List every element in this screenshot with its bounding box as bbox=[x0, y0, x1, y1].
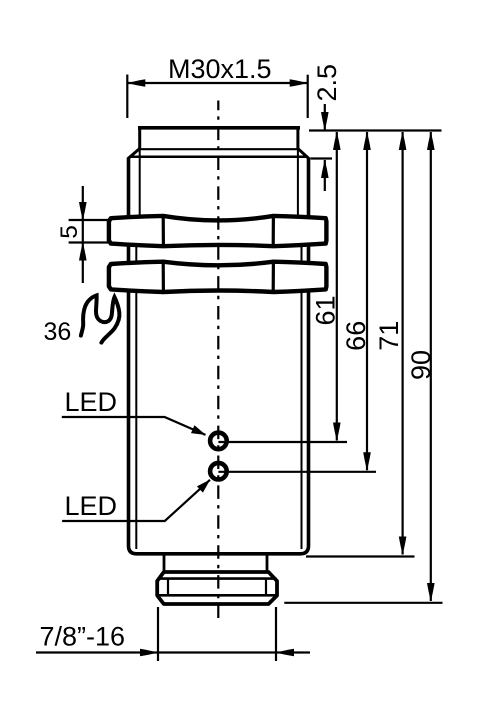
barrel chamfer right bbox=[298, 148, 310, 159]
sensing face top edge bbox=[138, 126, 300, 130]
leader line LED upper bbox=[62, 417, 206, 435]
hex nut 1 left facet line bbox=[162, 216, 165, 247]
extension line nut bottom (5) bbox=[69, 241, 112, 243]
arrow M30 left bbox=[127, 79, 145, 87]
arrow 7/8-16 right bbox=[276, 649, 294, 657]
extension line connector bottom (90) bbox=[284, 602, 442, 604]
svg-text:36: 36 bbox=[44, 318, 72, 346]
centerline (dash-dot vertical axis) bbox=[217, 101, 219, 619]
extension line M30 left bbox=[126, 75, 128, 119]
thread inner line left bbox=[139, 149, 141, 217]
connector relief line right bbox=[265, 579, 267, 596]
sensing face right edge bbox=[296, 127, 299, 150]
sensing face bottom edge bbox=[140, 148, 298, 150]
svg-text:2.5: 2.5 bbox=[312, 64, 342, 102]
extension line top face (reference for 2.5 / 61 / 66 / 71 / 90) bbox=[309, 129, 442, 131]
svg-text:LED: LED bbox=[65, 491, 118, 521]
hex nut 1 outline bbox=[109, 216, 327, 246]
dimension line 61 bbox=[336, 132, 338, 441]
extension line M30 right bbox=[307, 75, 309, 118]
svg-text:61: 61 bbox=[311, 295, 341, 325]
dimension line 71 bbox=[402, 132, 404, 555]
sensing face left edge bbox=[138, 127, 141, 150]
connector thread line lower bbox=[158, 594, 277, 597]
connector neck right bbox=[266, 555, 269, 572]
svg-text:71: 71 bbox=[374, 321, 404, 351]
thread barrel top edge bbox=[130, 156, 308, 159]
leader arrow LED upper bbox=[191, 425, 207, 439]
svg-text:66: 66 bbox=[341, 321, 371, 351]
hex nut 1 right facet line bbox=[272, 216, 275, 247]
extension line LED 1 (61) bbox=[218, 441, 347, 443]
svg-text:M30x1.5: M30x1.5 bbox=[168, 54, 272, 84]
barrel left side bbox=[127, 158, 131, 218]
svg-text:7/8”-16: 7/8”-16 bbox=[40, 622, 126, 652]
svg-text:5: 5 bbox=[56, 225, 83, 239]
barrel right side bbox=[307, 158, 311, 218]
arrow 66 up bbox=[363, 132, 371, 150]
extension line body bottom (71) bbox=[306, 555, 415, 557]
dimension line 66 bbox=[366, 132, 368, 470]
body inner line left bbox=[135, 290, 137, 549]
extension line barrel shoulder (2.5 bottom) bbox=[311, 157, 333, 159]
arrow 2.5 up bbox=[321, 160, 329, 178]
extension line nut top (5) bbox=[69, 219, 110, 221]
connector thread line upper bbox=[158, 577, 277, 580]
dimension line M30x1.5 bbox=[127, 82, 307, 84]
leader arrow LED lower bbox=[197, 477, 213, 493]
body inner line right bbox=[301, 290, 303, 549]
connector relief line left bbox=[167, 579, 169, 596]
hex nut 2 left facet line bbox=[162, 262, 165, 293]
arrow 71 down bbox=[399, 537, 407, 555]
thread inner line right bbox=[297, 149, 299, 217]
body inner right between nuts bbox=[301, 246, 303, 262]
arrow 66 down bbox=[363, 452, 371, 470]
arrow 5 down bbox=[79, 202, 87, 220]
dimension 2.5 upper shaft bbox=[324, 104, 326, 130]
arrow 5 up bbox=[79, 243, 87, 261]
svg-text:90: 90 bbox=[406, 350, 436, 380]
dimension line 90 bbox=[430, 132, 432, 601]
LED indicator 1 bbox=[210, 433, 227, 450]
extension line connector right (7/8-16) bbox=[275, 607, 277, 661]
dimension line 7/8-16 bbox=[36, 651, 310, 653]
arrow 71 up bbox=[399, 132, 407, 150]
arrow 90 up bbox=[427, 132, 435, 150]
arrow M30 right bbox=[290, 79, 308, 87]
main body tube outline with rounded bottom corners bbox=[129, 290, 309, 554]
arrow 2.5 down bbox=[321, 112, 329, 130]
hex nut 2 right facet line bbox=[272, 262, 275, 293]
body outer right between nuts bbox=[307, 245, 311, 263]
arrow 61 up bbox=[333, 132, 341, 150]
dimension 5 shaft bbox=[82, 186, 84, 283]
LED indicator 2 bbox=[210, 463, 227, 480]
body inner left between nuts bbox=[135, 246, 137, 262]
wrench symbol bbox=[81, 295, 120, 342]
dimension 2.5 lower shaft bbox=[324, 160, 326, 191]
leader line LED lower bbox=[62, 480, 210, 521]
arrow 7/8-16 left bbox=[140, 649, 158, 657]
extension line LED 2 (66) bbox=[218, 471, 376, 473]
body outer left between nuts bbox=[127, 245, 131, 263]
arrow 61 down bbox=[333, 423, 341, 441]
connector barrel outline (7/8inch plug) bbox=[157, 572, 277, 604]
barrel chamfer left bbox=[128, 148, 140, 159]
hex nut 2 outline bbox=[109, 262, 327, 292]
arrow 90 down bbox=[427, 583, 435, 601]
extension line connector left (7/8-16) bbox=[157, 607, 159, 661]
svg-text:LED: LED bbox=[65, 387, 118, 417]
connector neck left bbox=[163, 555, 166, 572]
